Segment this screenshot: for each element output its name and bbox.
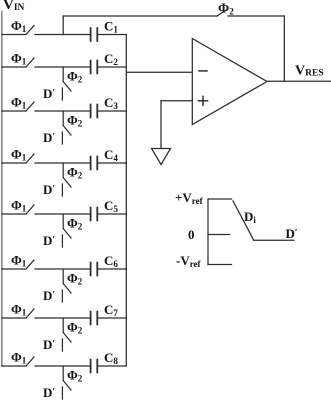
svg-text:0: 0 [188,227,195,242]
